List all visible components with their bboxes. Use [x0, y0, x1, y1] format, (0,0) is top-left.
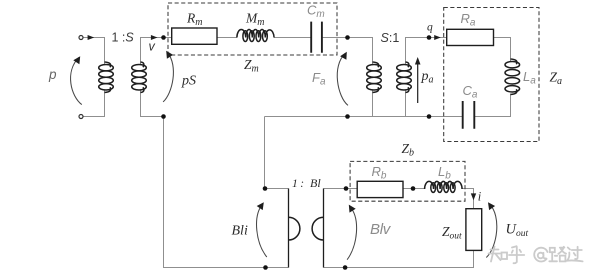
- svg-text:p: p: [48, 67, 57, 82]
- svg-text:pS: pS: [181, 74, 196, 89]
- svg-text:v: v: [149, 40, 156, 54]
- svg-text:Bli: Bli: [232, 224, 248, 239]
- svg-text:S:1: S:1: [381, 31, 400, 45]
- svg-text:q: q: [427, 22, 433, 34]
- svg-text:i: i: [478, 190, 482, 204]
- svg-text:Blv: Blv: [370, 221, 392, 238]
- svg-text:1 :S: 1 :S: [112, 31, 135, 45]
